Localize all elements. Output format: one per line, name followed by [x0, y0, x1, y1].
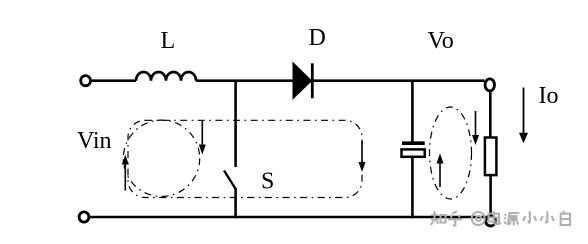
- wire: switch branch lower: [234, 188, 237, 218]
- terminal: output top-right: [485, 79, 494, 91]
- capacitor C top plate: [402, 141, 425, 145]
- current loop 1 dashed circle: [123, 120, 199, 196]
- wire: load branch upper: [489, 91, 492, 138]
- arrow up on loop3 left: [439, 162, 441, 187]
- wire: top rail from input terminal to output node: [91, 79, 485, 82]
- svg-text:D: D: [309, 25, 326, 51]
- arrow down on loop2 right: [361, 141, 363, 163]
- wire: capacitor branch lower: [411, 157, 414, 219]
- glyph 小 (2): [541, 211, 554, 223]
- glyph 知: [431, 211, 446, 225]
- wire: load branch lower: [489, 175, 492, 215]
- terminal: bottom-left: [79, 212, 89, 222]
- diode D cathode bar: [311, 63, 314, 98]
- glyph 乎: [448, 211, 463, 226]
- current loop 2 dashed rounded rectangle: [128, 120, 362, 197]
- arrow down on loop3 right: [475, 111, 477, 136]
- resistor load: [485, 138, 497, 176]
- arrow down on loop1 right: [201, 121, 203, 145]
- wire: switch branch upper: [234, 81, 237, 167]
- arrow Io: [523, 88, 525, 135]
- glyph 白: [561, 211, 570, 225]
- capacitor C bottom plate: [402, 149, 425, 156]
- switch S blade: [224, 171, 236, 190]
- svg-text:Vin: Vin: [77, 128, 112, 154]
- glyph 源: [504, 213, 519, 226]
- watermark 知乎 @电源小小白 (drawn vector glyphs): [431, 211, 571, 226]
- svg-text:L: L: [161, 28, 176, 54]
- diode D anode triangle: [293, 63, 312, 99]
- terminal: input top-left: [81, 76, 91, 86]
- svg-text:Io: Io: [539, 83, 559, 109]
- arrow up on loop1 left: [124, 163, 126, 191]
- wire: bottom rail: [89, 216, 486, 219]
- terminal: bottom-right: [486, 216, 496, 226]
- svg-text:Vo: Vo: [428, 28, 454, 54]
- glyph 小 (1): [523, 211, 536, 223]
- inductor L: [136, 72, 196, 81]
- wire: capacitor branch upper: [411, 81, 414, 142]
- svg-text:S: S: [261, 169, 274, 195]
- current loop 3 dashed ellipse: [430, 107, 472, 199]
- glyph 电: [489, 211, 501, 224]
- glyph @: [472, 212, 485, 225]
